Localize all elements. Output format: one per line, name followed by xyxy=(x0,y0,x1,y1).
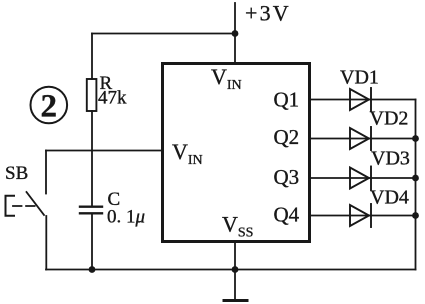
diode VD4 xyxy=(350,204,371,227)
junction dot at capacitor bottom xyxy=(89,266,96,273)
junction dot bus Q2 xyxy=(412,135,419,142)
diode VD2 xyxy=(350,127,371,150)
switch SB actuator bracket xyxy=(6,196,15,216)
wire +3V vertical xyxy=(234,3,236,62)
junction dot bus Q4 xyxy=(412,212,419,219)
svg-text:SB: SB xyxy=(5,163,28,184)
svg-text:VD4: VD4 xyxy=(370,187,409,209)
IC U1 body xyxy=(163,64,310,242)
ground bar xyxy=(224,299,247,302)
wire VIN horizontal xyxy=(46,150,161,152)
wire pin Q3 xyxy=(311,177,416,179)
switch SB top terminal wire xyxy=(45,151,47,194)
capacitor C top plate xyxy=(80,205,102,207)
junction dot bus Q3 xyxy=(412,175,419,182)
resistor R body xyxy=(87,79,97,111)
svg-text:0. 1μ: 0. 1μ xyxy=(107,207,145,228)
wire pin Q2 xyxy=(311,138,416,140)
wire resistor top xyxy=(91,34,93,80)
diode VD3 xyxy=(350,167,371,190)
switch SB lever xyxy=(27,192,45,215)
svg-text:2: 2 xyxy=(41,89,58,125)
wire VSS to ground xyxy=(234,243,236,300)
junction dot at +3V rail xyxy=(232,30,239,37)
wire right bus xyxy=(415,100,417,270)
wire resistor bottom to capacitor xyxy=(91,111,93,206)
svg-text:VD2: VD2 xyxy=(370,108,409,130)
wire capacitor bottom xyxy=(91,214,93,269)
svg-text:Q3: Q3 xyxy=(274,165,300,189)
svg-text:Q2: Q2 xyxy=(274,125,300,149)
switch SB actuator dashed link xyxy=(13,205,36,207)
svg-text:+3V: +3V xyxy=(245,1,291,26)
wire pin Q4 xyxy=(311,215,416,217)
switch SB bottom terminal wire xyxy=(45,216,47,270)
wire top horizontal to R xyxy=(92,33,235,35)
figure number 2 circle xyxy=(31,87,68,124)
svg-text:47k: 47k xyxy=(98,88,127,109)
svg-text:Q4: Q4 xyxy=(274,203,300,227)
capacitor C bottom plate xyxy=(80,212,102,214)
svg-text:VD3: VD3 xyxy=(371,148,410,170)
svg-text:Q1: Q1 xyxy=(274,88,300,112)
wire pin Q1 xyxy=(311,99,416,101)
junction dot VSS/bottom rail xyxy=(232,266,239,273)
wire bottom horizontal xyxy=(46,269,416,271)
diode VD1 xyxy=(350,88,371,111)
svg-text:VD1: VD1 xyxy=(340,67,379,89)
